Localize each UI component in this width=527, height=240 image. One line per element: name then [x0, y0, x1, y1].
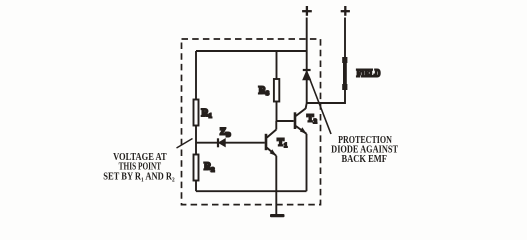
ground [270, 214, 285, 217]
wire: T1 emitter down to bottom rail [275, 156, 277, 191]
annotation: PROTECTION DIODE AGAINST BACK EMF [331, 134, 398, 165]
leader line: voltage-at-this-point annotation [177, 139, 193, 149]
zener diode ZD [218, 127, 231, 148]
wire: left supply line down to diode and collector junction [306, 18, 308, 104]
resistor R2 [194, 143, 215, 191]
svg-text:T1: T1 [277, 137, 287, 149]
dashed regulator enclosure [182, 39, 321, 205]
transistor T1 [265, 130, 288, 156]
svg-text:THIS POINT: THIS POINT [119, 160, 162, 171]
wire: ground lead below rail [275, 191, 277, 214]
svg-text:R3: R3 [259, 85, 270, 97]
resistor R1 [194, 51, 212, 143]
wire: divider junction to T1 base through zener [196, 142, 265, 144]
annotation: VOLTAGE AT THIS POINT SET BY R1 AND R2 [103, 153, 175, 184]
resistor R3 [259, 51, 280, 121]
wire: right supply line down to field winding [344, 18, 346, 59]
wire: R3 bottom / T1 collector to T2 base [276, 120, 293, 122]
wire: bottom rail [196, 190, 307, 192]
svg-text:R1: R1 [201, 108, 211, 120]
protection diode (freewheel, on left supply line) [303, 70, 311, 80]
wire: field bottom to diode / T2 collector junction [307, 90, 345, 103]
supply terminal + (left) [302, 6, 312, 16]
leader line: protection diode annotation [309, 77, 331, 134]
svg-text:DIODE AGAINST: DIODE AGAINST [331, 144, 398, 155]
wire: T1 collector up to R3 bottom / T2 base node [275, 121, 277, 130]
svg-text:BACK EMF: BACK EMF [341, 154, 387, 165]
svg-text:R2: R2 [204, 162, 214, 174]
wire: T2 emitter down to bottom rail [306, 134, 308, 191]
supply terminal + (right) [341, 6, 350, 16]
svg-text:SET BY R1 AND R2: SET BY R1 AND R2 [103, 172, 175, 183]
svg-text:FIELD: FIELD [357, 67, 381, 78]
svg-text:T2: T2 [307, 113, 317, 125]
wire: top supply rail [196, 50, 307, 52]
transistor T2 [294, 103, 317, 134]
field winding FIELD [342, 57, 347, 90]
svg-text:ZD: ZD [220, 127, 232, 139]
